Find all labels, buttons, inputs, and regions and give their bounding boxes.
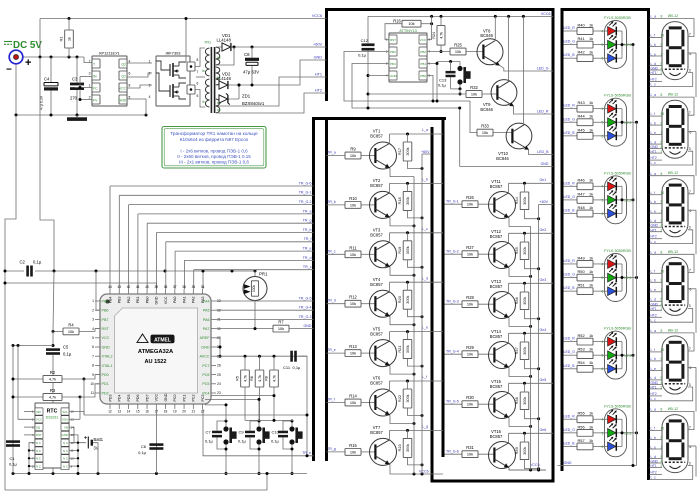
wire TR_e from MCU [175, 251, 313, 289]
wire RTC NC left bus [28, 443, 36, 475]
svg-text:PB2: PB2 [420, 50, 426, 54]
wire PA7 node [216, 327, 273, 330]
board frame: grid-driver board bottom edge [431, 480, 554, 483]
svg-text:7: 7 [689, 111, 691, 115]
svg-text:8: 8 [92, 364, 94, 368]
svg-text:6: 6 [690, 366, 692, 370]
VFD tube H5 IV-12 envelope [662, 328, 688, 394]
svg-text:PC1: PC1 [182, 395, 186, 402]
svg-text:9: 9 [92, 373, 94, 377]
capacitor C5 0.1u [46, 345, 72, 474]
svg-text:4,7k: 4,7k [258, 375, 262, 382]
net label LED_B [537, 150, 549, 154]
svg-text:PD4: PD4 [118, 395, 122, 402]
IC U2 IRF7303 body [156, 51, 190, 107]
svg-text:15: 15 [136, 410, 140, 414]
wire cathode bus module D3 [621, 186, 635, 213]
svg-text:VCC: VCC [102, 336, 110, 340]
right pins tube H5 [688, 347, 696, 412]
wire LED_R group 1 [564, 30, 578, 32]
pin wires tube H3 [650, 172, 695, 244]
svg-text:R27: R27 [466, 245, 474, 250]
net label TR_G-2 [299, 200, 312, 204]
wire collector VT15 to Gn5 [509, 382, 553, 393]
svg-text:4: 4 [149, 95, 151, 99]
svg-text:DS3231: DS3231 [46, 416, 59, 420]
wire emitter VT14 [509, 368, 532, 378]
digit segments tube H3 [666, 184, 684, 225]
svg-text:TR_G-5: TR_G-5 [446, 399, 459, 403]
svg-text:RST: RST [36, 433, 42, 437]
RGB LED module D6 FYLS-5050RGB outline [604, 404, 631, 457]
svg-text:BC857: BC857 [370, 381, 383, 386]
resistor R14 10k [345, 394, 375, 406]
svg-text:6: 6 [690, 52, 692, 56]
resistor R17 300k [397, 134, 424, 170]
svg-text:LED_G: LED_G [564, 273, 576, 277]
svg-text:ATTINY13: ATTINY13 [399, 29, 416, 33]
svg-text:300k: 300k [523, 347, 527, 355]
wire PR1 tap from pin PA3 [202, 270, 205, 290]
svg-text:0,1µ: 0,1µ [33, 260, 42, 265]
svg-text:R45: R45 [578, 127, 585, 132]
svg-text:BC857: BC857 [490, 334, 503, 339]
net label VCC6 [312, 14, 322, 18]
svg-text:HT2: HT2 [651, 235, 657, 239]
svg-text:TR_f: TR_f [327, 398, 335, 402]
svg-text:3: 3 [149, 84, 151, 88]
svg-text:41: 41 [136, 285, 140, 289]
svg-text:L_b: L_b [422, 178, 428, 182]
svg-text:PC2: PC2 [192, 395, 196, 402]
svg-text:300k: 300k [406, 147, 410, 155]
svg-text:11: 11 [91, 391, 95, 395]
svg-text:PD7: PD7 [145, 395, 149, 402]
svg-text:VCC: VCC [420, 38, 427, 42]
resistor R3 4.7k [12, 384, 101, 401]
svg-text:0,1µ: 0,1µ [63, 352, 72, 357]
svg-text:PB1: PB1 [420, 62, 426, 66]
svg-text:PR1: PR1 [259, 272, 268, 277]
svg-text:PD3: PD3 [108, 395, 112, 402]
junction dots on GND wire [15, 114, 148, 117]
wire PA4 TR_G-5 [216, 296, 314, 301]
wire LED_G group 4 [564, 277, 578, 279]
wire GND pin tap [367, 76, 390, 110]
board frame: control board left edge [325, 8, 328, 101]
svg-text:R1: R1 [59, 37, 64, 42]
svg-text:VCC6: VCC6 [419, 470, 429, 474]
wire U1 VCC to IRF pin3 [127, 85, 152, 88]
svg-text:2: 2 [89, 96, 91, 100]
transistor Q-A mosfet inside IRF7303 [156, 61, 186, 78]
svg-text:L_a: L_a [651, 250, 657, 254]
wire VT9 collector [508, 16, 510, 81]
wire collector VT5 to L_e [390, 330, 444, 341]
digit segments tube H4 [666, 262, 684, 303]
net label TR_G-5 input [446, 399, 459, 403]
svg-text:PC0: PC0 [173, 395, 177, 402]
pin wires tube H6 [650, 408, 695, 480]
svg-text:TR_G-2: TR_G-2 [299, 200, 312, 204]
resistor R15 10k [345, 443, 375, 455]
svg-text:TR_G-5: TR_G-5 [299, 296, 312, 300]
svg-text:TR_G-1: TR_G-1 [299, 191, 312, 195]
svg-text:7: 7 [689, 426, 691, 430]
resistor R31 10k [462, 445, 494, 457]
svg-text:IRF7303: IRF7303 [166, 51, 181, 56]
DC supply symbol [4, 40, 42, 51]
svg-text:1k: 1k [589, 50, 593, 55]
wire LED_R group 6 [564, 418, 578, 420]
button S1 with capacitor C7 [205, 420, 237, 476]
svg-text:BC857: BC857 [370, 282, 383, 287]
filament tube H5 [670, 387, 681, 390]
wire RTC SQ stub [24, 426, 35, 428]
wire PC3 exit run [203, 409, 314, 457]
svg-text:R4: R4 [68, 322, 74, 327]
svg-text:300k: 300k [523, 297, 527, 305]
svg-text:R29: R29 [466, 345, 474, 350]
svg-text:IN: IN [93, 75, 97, 79]
svg-text:0,1µ: 0,1µ [293, 365, 302, 370]
transformer TR1 label [204, 41, 211, 45]
wire emitter VT12 [509, 268, 532, 278]
svg-text:40: 40 [145, 285, 149, 289]
wire +60V output [218, 46, 327, 48]
wire emitter rail segment board [413, 177, 415, 475]
svg-text:10k: 10k [350, 153, 356, 158]
svg-text:L_f: L_f [651, 34, 656, 38]
svg-text:R51: R51 [578, 283, 585, 288]
svg-text:R52: R52 [578, 333, 585, 338]
svg-text:LED_R: LED_R [564, 104, 576, 108]
grid mesh tube H6 [665, 461, 685, 463]
resistor R25 10k [450, 43, 482, 55]
svg-text:IIa: IIa [217, 56, 221, 60]
LED green in module D1 [602, 35, 622, 49]
svg-text:PA3: PA3 [201, 297, 205, 304]
net label HT2 [315, 89, 322, 93]
grid mesh tube H3 [665, 226, 685, 228]
button S2 with capacitor C9 [238, 420, 270, 476]
svg-text:10k: 10k [467, 302, 473, 307]
net label Gn1 [540, 178, 547, 182]
svg-text:FYLS-5050RGB: FYLS-5050RGB [604, 404, 631, 408]
svg-text:10: 10 [661, 191, 665, 195]
svg-text:PB6: PB6 [102, 309, 109, 313]
wire U1 Q1 to IRF pin2 [127, 73, 152, 77]
svg-text:L_a: L_a [651, 408, 657, 412]
wire RTC VB to battery [69, 427, 86, 443]
svg-text:LED_B: LED_B [564, 286, 576, 290]
svg-text:TR_e: TR_e [302, 451, 311, 455]
svg-text:7: 7 [689, 33, 691, 37]
svg-text:10k: 10k [68, 329, 74, 334]
svg-text:47µ 63V: 47µ 63V [243, 70, 259, 75]
svg-text:7: 7 [197, 70, 199, 74]
svg-text:PC6: PC6 [202, 373, 209, 377]
transistor VT11 BC857 [489, 179, 516, 219]
pin wires tube H1 [650, 15, 695, 87]
transformer TR1 winding Ib [202, 79, 210, 107]
svg-text:R48: R48 [578, 205, 585, 210]
svg-text:VCC6: VCC6 [541, 12, 551, 16]
wire LED_R group 3 [564, 185, 578, 187]
grid mesh tube H1 [665, 68, 685, 70]
U1 pin cells right [119, 59, 127, 104]
filament tube H1 [670, 73, 681, 76]
resistor R48 1k [577, 205, 608, 217]
svg-text:4: 4 [92, 327, 94, 331]
svg-text:BC846: BC846 [480, 33, 493, 38]
wire U2 to TR1 primary bottom [195, 90, 205, 108]
svg-text:4,7k: 4,7k [439, 32, 443, 39]
svg-text:+60V: +60V [421, 150, 430, 154]
wire SDA riser [79, 397, 81, 419]
svg-text:PA0: PA0 [173, 297, 177, 304]
svg-text:C2: C2 [20, 260, 26, 265]
svg-text:HT2: HT2 [651, 78, 657, 82]
svg-text:L_c: L_c [651, 318, 657, 322]
svg-text:10: 10 [661, 34, 665, 38]
svg-text:8: 8 [661, 172, 663, 176]
capacitor C2 0.1u [5, 260, 255, 277]
net label LED_B group 4 [564, 286, 576, 290]
svg-text:10k: 10k [467, 352, 473, 357]
net label L_c [422, 227, 428, 231]
wire PB3 to button [344, 52, 477, 133]
resistor R39 300k [514, 433, 540, 470]
transistor VT9 BC846 [480, 80, 516, 112]
svg-text:1,2,3: 1,2,3 [624, 121, 631, 125]
wire emitter rail grid board [530, 226, 532, 470]
svg-text:BC857: BC857 [370, 233, 383, 238]
wire LED GND bottom [558, 464, 637, 467]
junction dots +60V wire [233, 46, 254, 49]
net label GND at PSU [314, 56, 323, 60]
svg-text:PB0: PB0 [420, 74, 426, 78]
wire PA6 TR_G-3 [216, 315, 314, 320]
resistor R13 10k [345, 344, 375, 356]
net label GND control board [541, 162, 549, 166]
svg-text:5: 5 [92, 336, 94, 340]
wire base row VT5 [327, 352, 346, 354]
wire base row VT10 [427, 76, 435, 103]
svg-text:R40: R40 [578, 22, 586, 27]
svg-text:КР1211ЕУ1: КР1211ЕУ1 [99, 51, 119, 56]
svg-text:10k: 10k [350, 400, 356, 405]
svg-text:BC857: BC857 [490, 284, 503, 289]
svg-text:3: 3 [689, 68, 691, 72]
resistor R21 300k [397, 332, 424, 368]
wire SCL riser [83, 379, 85, 415]
wire TR_G-1 from MCU [119, 195, 313, 289]
svg-text:L_a: L_a [651, 329, 657, 333]
svg-text:R19: R19 [397, 247, 402, 254]
RGB LED module D3 FYLS-5050RGB outline [604, 171, 631, 224]
wire collector VT6 to L_f [390, 380, 444, 391]
svg-text:Ia: Ia [202, 69, 205, 73]
resistor R8 4.7k [264, 356, 279, 395]
wire LED_B group 1 [564, 57, 578, 59]
resistor R11 10k [345, 245, 375, 257]
svg-text:5: 5 [602, 198, 604, 202]
svg-text:R13: R13 [349, 344, 357, 349]
svg-text:TR_b: TR_b [303, 228, 312, 232]
svg-text:TR1: TR1 [204, 41, 211, 45]
svg-text:4,7k: 4,7k [272, 375, 276, 382]
svg-text:Gn3: Gn3 [540, 278, 547, 282]
net label LED_R group 6 [564, 414, 576, 418]
net label TR_a [303, 209, 312, 213]
svg-text:10: 10 [661, 427, 665, 431]
svg-text:R54: R54 [578, 360, 586, 365]
net label TR_f [304, 237, 312, 241]
RGB LED module D1 FYLS-5050RGB outline [604, 16, 631, 69]
net label TR_g [303, 219, 312, 223]
pin wires tube H4 [650, 250, 695, 322]
capacitor C12 0.1u [358, 16, 374, 94]
grid mesh tube H2 [665, 147, 685, 149]
svg-text:R42: R42 [578, 50, 585, 55]
svg-text:4: 4 [602, 185, 604, 189]
resistor R49 1k [577, 255, 608, 267]
svg-text:R24: R24 [431, 31, 436, 39]
LED green in module D2 [602, 113, 622, 127]
svg-text:−: − [6, 65, 12, 76]
wire PB2 row [427, 51, 450, 53]
resistor R33 10k [477, 124, 512, 136]
resistor R43 1k [577, 100, 608, 112]
LED green in module D4 [602, 268, 622, 282]
wire LED cathode bus B [636, 122, 638, 465]
wire GND rail to MCU top [4, 282, 157, 290]
wire base row VT11 [445, 203, 463, 205]
svg-text:L_f: L_f [651, 112, 656, 116]
net label TR_d input [327, 299, 336, 303]
wire emitter VT6 [390, 415, 416, 425]
svg-text:FYLS-5050RGB: FYLS-5050RGB [604, 171, 631, 175]
IC U1 KR1211EU1 body [92, 51, 127, 107]
svg-text:TR_G-4: TR_G-4 [299, 306, 312, 310]
resistor R12 10k [345, 295, 375, 307]
svg-text:25: 25 [217, 373, 221, 377]
wire +60V rail grid board [538, 205, 540, 471]
svg-text:3: 3 [689, 383, 691, 387]
RGB LED module D5 FYLS-5050RGB outline [604, 327, 631, 380]
wire LED_B group 3 [564, 213, 578, 215]
svg-text:C3: C3 [72, 77, 78, 82]
wire base row VT15 [445, 403, 463, 405]
svg-text:L_g: L_g [422, 425, 428, 429]
svg-text:3: 3 [689, 147, 691, 151]
svg-text:HT2: HT2 [651, 313, 657, 317]
svg-text:L_a: L_a [422, 128, 428, 132]
junction dots VD2 wire [238, 84, 254, 87]
svg-text:FV: FV [93, 99, 98, 103]
svg-text:TR_d: TR_d [327, 299, 336, 303]
grid mesh tube H5 [665, 383, 685, 385]
wire collector VT12 to Gn2 [509, 232, 553, 243]
wire VCC to U2 drains [185, 17, 188, 62]
svg-text:R28: R28 [466, 295, 474, 300]
svg-text:1k: 1k [589, 360, 593, 365]
svg-text:0,1µ: 0,1µ [9, 462, 18, 467]
resistor R37 300k [514, 333, 540, 370]
net label HT1 [315, 73, 322, 77]
svg-text:GND: GND [119, 99, 127, 103]
wire SCL long run [84, 414, 309, 417]
svg-text:6: 6 [129, 72, 131, 76]
wire base row VT13 [445, 303, 463, 305]
LED blue in module D6 [602, 437, 622, 451]
svg-text:TR_G-6: TR_G-6 [299, 181, 312, 185]
svg-text:R46: R46 [578, 178, 585, 183]
svg-text:10k: 10k [471, 92, 477, 97]
svg-text:R38: R38 [514, 397, 519, 404]
wire TR_a from MCU [138, 214, 314, 289]
svg-text:100k: 100k [252, 285, 256, 292]
svg-text:0,1µ: 0,1µ [205, 439, 214, 444]
wire LED_G group 5 [564, 354, 578, 356]
svg-text:10: 10 [90, 382, 94, 386]
svg-text:3: 3 [89, 72, 91, 76]
wire VCC pin riser [427, 16, 432, 39]
svg-text:R14: R14 [349, 394, 357, 399]
svg-text:10k: 10k [467, 402, 473, 407]
svg-text:L_f: L_f [651, 269, 656, 273]
svg-text:1k: 1k [589, 333, 593, 338]
transistor VT3 BC857 [370, 228, 397, 268]
svg-text:R2: R2 [50, 370, 56, 375]
resistor R16 10k [385, 19, 433, 40]
svg-text:LED_R: LED_R [564, 414, 576, 418]
wire RTC VCC to +5 [18, 346, 35, 420]
svg-text:6: 6 [92, 345, 94, 349]
wire LED_R group 4 [564, 263, 578, 265]
wire collector VT11 to Gn1 [509, 182, 553, 193]
wire emitter VT15 [509, 418, 532, 428]
svg-text:IIIb: IIIb [217, 108, 222, 112]
resistor R4 10k [52, 322, 101, 334]
svg-text:N C: N C [63, 457, 68, 461]
svg-text:N C: N C [36, 441, 41, 445]
svg-text:0,1µ: 0,1µ [358, 53, 367, 58]
transistor VT14 BC857 [489, 329, 516, 369]
board frame: LED board top edge [561, 8, 649, 11]
LED green in module D6 [602, 423, 622, 437]
svg-text:VCC: VCC [36, 418, 42, 422]
transistor VT10 BC846 [496, 123, 532, 161]
transformer TR1 winding IIb [216, 67, 221, 85]
svg-text:FYLS-5050RGB: FYLS-5050RGB [604, 16, 631, 20]
svg-text:1,2,3: 1,2,3 [624, 199, 631, 203]
junction dots on +5V wire [39, 56, 79, 59]
svg-text:300k: 300k [406, 296, 410, 304]
svg-text:10k: 10k [408, 21, 414, 26]
net label +60V at PSU [313, 43, 322, 47]
net label TR_g input [327, 447, 336, 451]
svg-text:LED_R: LED_R [564, 259, 576, 263]
filament tube H6 [670, 466, 681, 469]
svg-text:6: 6 [690, 445, 692, 449]
svg-text:7: 7 [92, 354, 94, 358]
svg-text:3: 3 [689, 226, 691, 230]
svg-text:8: 8 [661, 250, 663, 254]
VFD tube H2 IV-12 envelope [662, 93, 688, 159]
net label LED_R group 3 [564, 181, 576, 185]
